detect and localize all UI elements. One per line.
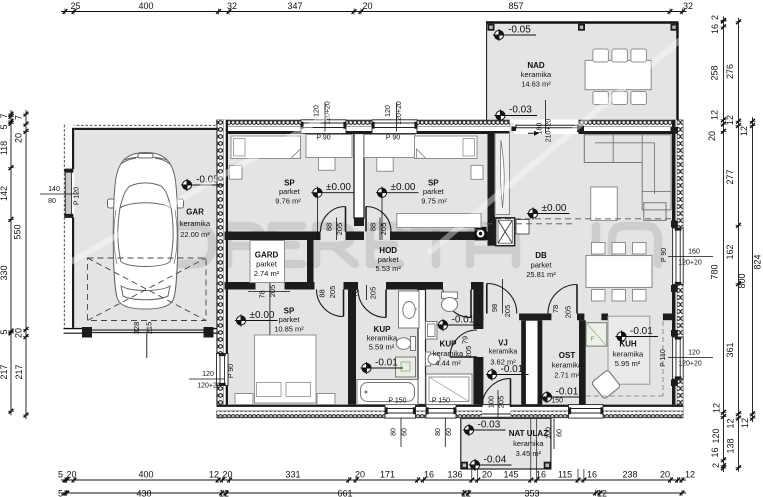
fixture KUP2 sink <box>426 322 438 340</box>
svg-text:P 150: P 150 <box>432 397 450 404</box>
svg-text:20: 20 <box>66 470 76 480</box>
door arc SP3 <box>317 290 344 317</box>
porch NAT ULAZ floor <box>461 418 551 469</box>
wall band VJ-OST-KUH north <box>473 314 483 321</box>
svg-text:VJ: VJ <box>498 339 508 348</box>
level marker NAD -0.03 <box>496 111 505 120</box>
level marker SP2 +-0.00 <box>377 188 386 197</box>
svg-text:-0.01: -0.01 <box>556 387 579 398</box>
furniture KUH fridge <box>586 323 607 346</box>
svg-text:205: 205 <box>503 305 512 318</box>
level marker KUP2 -0.01 <box>438 320 447 329</box>
svg-text:16: 16 <box>587 470 597 480</box>
wall north exterior <box>217 120 302 134</box>
svg-text:12: 12 <box>726 418 736 428</box>
window P90 SP2 north <box>372 120 417 134</box>
level marker KUP1 -0.01 <box>362 363 371 372</box>
fixture KUP2 toilet <box>442 292 458 299</box>
window P150 OST south <box>569 405 604 419</box>
svg-text:550: 550 <box>13 224 23 239</box>
svg-text:12: 12 <box>219 489 229 497</box>
wall KUP2-VJ <box>473 282 483 329</box>
terrace NAD floor <box>486 23 679 120</box>
svg-text:5: 5 <box>58 489 63 497</box>
svg-text:P 110: P 110 <box>660 349 667 367</box>
dimension chain right 1 <box>723 16 725 472</box>
svg-text:DB: DB <box>535 251 547 260</box>
svg-text:430: 430 <box>136 489 151 497</box>
door arc VJ to KUP2 <box>450 330 477 357</box>
door arc VJ north <box>487 284 517 314</box>
svg-text:10.85 m²: 10.85 m² <box>274 325 304 334</box>
annotation KUP1 window sill <box>400 418 402 447</box>
svg-text:keramika: keramika <box>613 350 644 359</box>
DB zone dashed lines <box>495 218 676 220</box>
svg-text:12: 12 <box>597 489 607 497</box>
svg-text:661: 661 <box>337 489 352 497</box>
level marker KUH -0.01 <box>617 332 626 341</box>
door arc SP2 <box>366 207 391 232</box>
wall garage north <box>64 125 217 130</box>
wall SP3-KUP1 <box>348 290 356 405</box>
svg-text:328: 328 <box>132 322 141 335</box>
svg-text:400: 400 <box>138 1 153 11</box>
svg-text:keramika: keramika <box>433 349 464 358</box>
svg-text:140: 140 <box>48 186 60 193</box>
svg-text:P 90: P 90 <box>386 135 400 142</box>
car in garage <box>108 153 184 310</box>
svg-text:120: 120 <box>202 371 214 378</box>
annotation OST window sill <box>553 418 555 449</box>
svg-text:7: 7 <box>14 115 24 120</box>
porch post SW <box>461 462 468 469</box>
wall DB west <box>488 134 496 246</box>
terrace door arrow <box>528 132 537 134</box>
dimension chain top <box>61 11 687 13</box>
svg-text:±0.00: ±0.00 <box>326 182 351 193</box>
annotation KUH window <box>668 357 713 359</box>
svg-text:138: 138 <box>726 438 736 453</box>
svg-text:-0.05: -0.05 <box>508 25 531 36</box>
svg-text:25: 25 <box>70 1 80 11</box>
level marker NAD -0.05 <box>494 30 503 39</box>
wall VJ east <box>521 320 525 404</box>
svg-text:±0.00: ±0.00 <box>542 203 567 214</box>
level marker VJ -0.01 <box>487 370 496 379</box>
svg-text:80: 80 <box>391 428 398 436</box>
window P90 SP3 west <box>217 354 229 386</box>
svg-text:215: 215 <box>145 322 154 335</box>
level marker GAR -0.05 <box>182 180 191 189</box>
svg-text:60: 60 <box>446 428 453 436</box>
terrace NAD edge left <box>486 23 488 120</box>
svg-text:12: 12 <box>209 470 219 480</box>
fixture KUP2 shower <box>426 374 472 405</box>
tall cupboard DB west <box>495 134 510 215</box>
svg-text:98: 98 <box>490 304 499 312</box>
svg-text:160: 160 <box>688 249 700 256</box>
furniture SP3 nightstands <box>235 394 253 405</box>
level marker NAT ULAZ -0.03 <box>464 425 473 434</box>
svg-text:5.59 m²: 5.59 m² <box>369 343 395 352</box>
shaft between VJ and OST <box>525 320 538 404</box>
svg-text:9.75 m²: 9.75 m² <box>421 197 447 206</box>
svg-text:800: 800 <box>737 273 747 288</box>
door arc KUP1 <box>358 290 386 318</box>
window P110 KUH east <box>673 337 684 379</box>
svg-text:217: 217 <box>14 364 24 379</box>
svg-text:14.63 m²: 14.63 m² <box>521 80 551 89</box>
wall south exterior <box>217 405 386 419</box>
svg-text:NAT ULAZ: NAT ULAZ <box>509 429 549 438</box>
svg-text:parket: parket <box>279 187 301 196</box>
garage door posts <box>82 327 92 338</box>
svg-text:16: 16 <box>536 470 546 480</box>
svg-text:12: 12 <box>710 110 720 120</box>
door arc KUP2 from HOD <box>443 290 471 318</box>
svg-text:OST: OST <box>559 351 576 360</box>
furniture DB chairs <box>592 243 606 255</box>
svg-text:5.95 m²: 5.95 m² <box>615 359 641 368</box>
dimension chain bottom 2 <box>61 492 686 494</box>
terrace post NE <box>671 24 678 31</box>
furniture KUH counter <box>608 316 650 384</box>
svg-text:205: 205 <box>335 223 344 236</box>
annotation garage window <box>40 193 78 195</box>
svg-text:32: 32 <box>683 1 693 11</box>
svg-text:16: 16 <box>710 24 720 34</box>
svg-text:5: 5 <box>0 124 9 129</box>
svg-text:5: 5 <box>0 329 9 334</box>
svg-text:16: 16 <box>710 447 720 457</box>
chimney flue box <box>496 218 515 246</box>
svg-text:3.45 m²: 3.45 m² <box>516 449 542 458</box>
door arc entry VJ south <box>482 379 511 408</box>
svg-text:824: 824 <box>753 254 763 269</box>
svg-text:330: 330 <box>0 265 9 280</box>
svg-text:80: 80 <box>48 198 56 205</box>
wall east exterior <box>673 120 684 228</box>
svg-text:20: 20 <box>355 470 365 480</box>
svg-text:-0.03: -0.03 <box>509 105 532 116</box>
svg-text:12: 12 <box>725 115 735 125</box>
watermark OPERETA <box>156 226 658 264</box>
wall west exterior <box>217 120 229 354</box>
svg-text:12: 12 <box>461 489 471 497</box>
fixture KUP1 toilet <box>411 337 416 351</box>
svg-text:205: 205 <box>564 306 573 319</box>
svg-text:277: 277 <box>725 169 735 184</box>
svg-text:120: 120 <box>711 428 721 443</box>
svg-text:parket: parket <box>279 315 301 324</box>
svg-text:7: 7 <box>0 113 9 118</box>
garage door lines <box>92 329 204 331</box>
svg-text:2.74 m²: 2.74 m² <box>254 269 280 278</box>
svg-text:120: 120 <box>385 105 392 117</box>
svg-text:136: 136 <box>447 470 462 480</box>
svg-text:120: 120 <box>688 350 700 357</box>
wall HOD south band <box>225 282 256 290</box>
wall KUP1-KUP2 <box>418 290 426 405</box>
door GARD dimension flag <box>269 268 271 369</box>
furniture DB corner sofa <box>584 135 671 210</box>
furniture bed SP1 <box>231 136 301 159</box>
wall band south of bedrooms <box>225 232 321 241</box>
svg-text:5.53 m²: 5.53 m² <box>375 264 401 273</box>
svg-text:331: 331 <box>285 470 300 480</box>
svg-text:60: 60 <box>402 428 409 436</box>
svg-text:GARD: GARD <box>255 251 279 260</box>
svg-text:78: 78 <box>551 305 560 313</box>
furniture NAD table <box>585 60 651 89</box>
fixture KUP2 bidet <box>426 352 431 366</box>
svg-text:20: 20 <box>362 1 372 11</box>
svg-text:2: 2 <box>711 463 721 468</box>
dimension chain right 3 <box>752 117 754 422</box>
svg-text:keramika: keramika <box>180 219 211 228</box>
furniture bed SP2 <box>415 136 478 159</box>
svg-text:parket: parket <box>423 187 445 196</box>
garage door center line <box>146 334 148 358</box>
svg-text:±0.00: ±0.00 <box>250 310 275 321</box>
level marker DB +-0.00 <box>528 209 537 218</box>
svg-text:120+20: 120+20 <box>678 361 702 368</box>
svg-text:205: 205 <box>268 285 277 298</box>
svg-text:NAD: NAD <box>527 61 545 70</box>
wall garage west <box>64 125 75 334</box>
window P150 KUP1 south <box>385 405 416 419</box>
door arc SP1 <box>321 207 346 232</box>
svg-text:20: 20 <box>14 133 24 143</box>
svg-text:205: 205 <box>328 286 337 299</box>
garage maneuver dashed box <box>88 258 207 321</box>
svg-text:162: 162 <box>725 244 735 259</box>
svg-text:20: 20 <box>660 470 670 480</box>
wall garage south stubs <box>64 328 93 334</box>
window P90 SP1 north <box>301 120 346 134</box>
annotation KUP2 window sill <box>444 418 446 447</box>
svg-text:parket: parket <box>378 255 400 264</box>
room GAR floor <box>64 125 217 334</box>
terrace NAD edge right <box>676 23 678 120</box>
dimension chain left inner <box>25 110 27 419</box>
annotation SP2 window width <box>396 103 398 132</box>
svg-text:115: 115 <box>558 470 572 480</box>
terrace door jamb <box>512 127 517 132</box>
svg-text:-0.04: -0.04 <box>484 455 507 466</box>
furniture GARD wardrobe <box>250 241 285 283</box>
svg-text:12: 12 <box>712 403 722 413</box>
wall GARD east <box>307 240 314 282</box>
annotation terrace door width <box>545 100 547 134</box>
terrace NAD edge top <box>486 21 679 23</box>
furniture SP1 nightstand <box>229 165 242 179</box>
svg-text:347: 347 <box>287 1 302 11</box>
svg-text:20: 20 <box>14 328 24 338</box>
svg-text:P 120: P 120 <box>74 187 81 205</box>
svg-text:parket: parket <box>531 261 553 270</box>
svg-text:F: F <box>591 337 595 343</box>
level marker SP1 +-0.00 <box>313 188 322 197</box>
svg-text:205: 205 <box>369 287 378 300</box>
svg-text:205: 205 <box>379 223 388 236</box>
svg-text:210+20: 210+20 <box>546 119 553 143</box>
svg-text:118: 118 <box>0 141 9 155</box>
svg-text:857: 857 <box>508 1 523 11</box>
svg-text:12: 12 <box>739 126 749 136</box>
house interior floor <box>220 123 679 415</box>
terrace post N mid <box>578 24 585 31</box>
door arc OST north <box>548 285 577 314</box>
svg-text:88: 88 <box>369 223 378 231</box>
svg-text:400: 400 <box>138 470 153 480</box>
svg-text:88: 88 <box>318 289 327 297</box>
svg-text:238: 238 <box>622 470 637 480</box>
annotation SP1 window width <box>324 103 326 132</box>
entry door threshold <box>482 405 511 419</box>
svg-text:2.71 m²: 2.71 m² <box>554 371 580 380</box>
window P120 garage west <box>65 169 71 218</box>
dimension chain right 2 <box>738 18 740 472</box>
svg-text:145: 145 <box>503 470 518 480</box>
svg-text:keramika: keramika <box>513 439 544 448</box>
KUH dashed projection <box>662 321 664 396</box>
light streak 2 <box>430 30 692 252</box>
svg-text:205: 205 <box>464 346 473 359</box>
level marker SP3 +-0.00 <box>236 316 245 325</box>
furniture NAD chairs <box>593 49 609 62</box>
terrace door threshold <box>514 120 578 134</box>
furniture bed SP3 <box>255 335 317 403</box>
svg-text:361: 361 <box>725 342 735 357</box>
light streak 1 <box>60 103 350 268</box>
svg-text:P 150: P 150 <box>388 397 406 404</box>
svg-text:-0.01: -0.01 <box>501 364 524 375</box>
svg-text:12: 12 <box>685 470 695 480</box>
furniture SP2 nightstand <box>471 165 483 179</box>
svg-text:KUP: KUP <box>440 340 458 349</box>
porch post SE <box>544 462 551 469</box>
window P150 KUP2 south <box>426 405 456 419</box>
annotation DB window <box>668 256 713 258</box>
svg-text:-0.01: -0.01 <box>630 326 653 337</box>
svg-text:78: 78 <box>351 289 360 297</box>
svg-text:16: 16 <box>424 470 434 480</box>
level marker OST -0.01 <box>542 392 551 401</box>
svg-text:78: 78 <box>257 290 266 298</box>
svg-text:keramika: keramika <box>489 349 518 356</box>
svg-text:80: 80 <box>435 428 442 436</box>
furniture DB coffee table <box>591 187 618 220</box>
dimension chain bottom 1 <box>61 479 686 481</box>
dimension chain left outer <box>10 110 12 415</box>
svg-text:353: 353 <box>524 489 539 497</box>
svg-text:20: 20 <box>222 470 232 480</box>
svg-text:171: 171 <box>380 470 395 480</box>
svg-text:±0.00: ±0.00 <box>391 182 416 193</box>
svg-text:205: 205 <box>497 396 506 409</box>
extension lines to bottom chain <box>530 419 532 478</box>
svg-text:-0.01: -0.01 <box>375 358 398 369</box>
stove connection circle <box>475 227 487 241</box>
svg-text:120: 120 <box>314 105 321 117</box>
svg-text:79: 79 <box>461 336 470 344</box>
svg-text:9.76 m²: 9.76 m² <box>275 197 301 206</box>
door post between SP doors <box>354 218 364 226</box>
furniture SP2 stool <box>377 158 393 172</box>
annotation SP3 window <box>189 378 224 380</box>
column NE corner <box>671 127 679 134</box>
svg-text:22.00 m²: 22.00 m² <box>180 230 210 239</box>
svg-text:keramika: keramika <box>367 334 398 343</box>
svg-text:4.44 m²: 4.44 m² <box>435 359 461 368</box>
svg-text:GAR: GAR <box>186 208 204 217</box>
svg-text:120+20: 120+20 <box>678 260 702 267</box>
terrace post NW <box>488 24 495 31</box>
furniture KUH chair rotated <box>591 370 620 399</box>
window P90 DB east <box>673 228 684 285</box>
svg-text:5: 5 <box>58 470 63 480</box>
svg-text:180: 180 <box>537 123 544 135</box>
svg-text:217: 217 <box>0 364 9 379</box>
furniture SP2 cabinet under window <box>364 135 415 158</box>
furniture SP1 stool <box>319 158 336 171</box>
fixture KUP1 vanity sink <box>399 291 420 328</box>
svg-text:P 90: P 90 <box>316 135 330 142</box>
svg-text:20: 20 <box>482 470 492 480</box>
svg-text:20: 20 <box>707 131 717 141</box>
svg-text:P 90: P 90 <box>661 248 668 262</box>
svg-text:88: 88 <box>325 223 334 231</box>
svg-text:780: 780 <box>710 264 720 279</box>
svg-text:keramika: keramika <box>521 70 552 79</box>
svg-text:32: 32 <box>227 1 237 11</box>
svg-text:keramika: keramika <box>552 361 583 370</box>
svg-text:120+20: 120+20 <box>396 101 403 125</box>
svg-text:25.81 m²: 25.81 m² <box>526 270 556 279</box>
wall OST west <box>538 320 542 404</box>
svg-text:parket: parket <box>256 260 278 269</box>
svg-text:P 90: P 90 <box>228 364 235 378</box>
level marker NAT ULAZ -0.04 <box>470 460 479 469</box>
svg-text:-0.01: -0.01 <box>452 315 475 326</box>
column north wall mid <box>577 126 584 133</box>
svg-text:2: 2 <box>710 15 720 20</box>
svg-text:120+20: 120+20 <box>197 383 221 390</box>
fixture KUP1 bathtub <box>357 380 418 405</box>
furniture DB dining table <box>586 256 652 288</box>
svg-text:100: 100 <box>546 427 553 439</box>
svg-text:276: 276 <box>725 64 735 79</box>
svg-text:258: 258 <box>710 65 720 80</box>
wall OST east <box>579 320 586 404</box>
svg-text:60: 60 <box>557 429 564 437</box>
svg-text:-0.03: -0.03 <box>478 420 501 431</box>
porch outline <box>461 418 551 469</box>
svg-text:12: 12 <box>740 418 750 428</box>
furniture SP2 wardrobe south <box>397 214 481 228</box>
fixture KUP1 washer <box>396 357 416 377</box>
svg-text:142: 142 <box>0 186 9 201</box>
furniture SP1 cabinet under window <box>306 135 352 158</box>
svg-text:HOD: HOD <box>379 246 397 255</box>
wall SP1-SP2 partition <box>354 134 364 219</box>
svg-text:100: 100 <box>487 396 496 409</box>
